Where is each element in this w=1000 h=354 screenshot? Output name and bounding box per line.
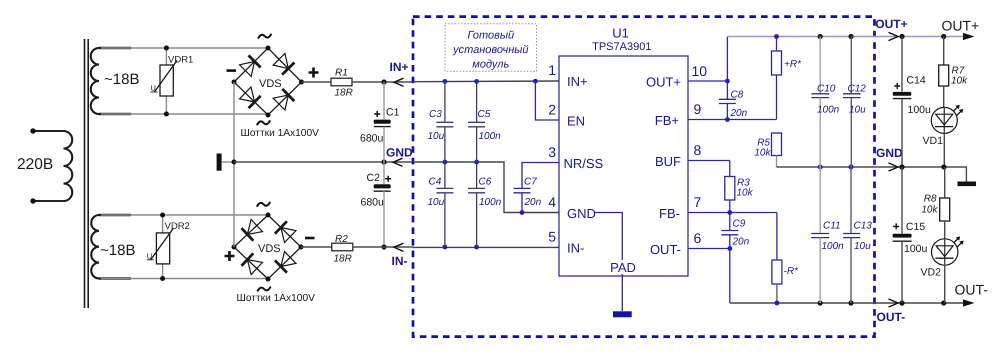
svg-text:3: 3 — [548, 144, 556, 160]
svg-text:C8: C8 — [731, 90, 744, 101]
capacitor C15 — [893, 167, 928, 303]
svg-text:C2: C2 — [367, 172, 381, 184]
svg-text:C15: C15 — [906, 221, 925, 233]
wire OUT+ row — [725, 34, 964, 122]
svg-text:680u: 680u — [361, 197, 385, 209]
wire EN tie — [535, 81, 559, 120]
op-amp regulator U1 TPS7A3901 — [559, 26, 688, 277]
svg-text:C4: C4 — [429, 177, 442, 188]
svg-text:6: 6 — [694, 230, 702, 246]
wire secondary1 bottom to bridge — [101, 113, 268, 115]
wire OUT+ corner from pin10 — [726, 37, 728, 82]
node GND junctions far right — [899, 164, 946, 169]
svg-text:PAD: PAD — [610, 260, 636, 275]
diode bridge2 top-right — [281, 228, 296, 243]
svg-text:VD2: VD2 — [921, 267, 942, 279]
wire secondary1 top to bridge — [101, 47, 268, 49]
PAD ground bar — [613, 311, 632, 317]
pin 6 stub — [688, 248, 730, 250]
svg-text:C11: C11 — [823, 221, 841, 232]
module dashed box — [413, 17, 875, 337]
svg-text:Готовый: Готовый — [467, 30, 514, 42]
svg-text:18R: 18R — [335, 87, 353, 98]
svg-text:~18В: ~18В — [104, 71, 139, 88]
svg-text:100n: 100n — [479, 197, 502, 208]
capacitor C14 — [893, 37, 931, 168]
svg-text:C14: C14 — [906, 75, 925, 87]
svg-text:10k: 10k — [951, 76, 968, 87]
resistor R3 — [725, 161, 754, 215]
LED VD1 — [923, 105, 964, 167]
module note box — [445, 24, 537, 72]
capacitor C13 — [843, 167, 872, 303]
svg-text:EN: EN — [567, 114, 585, 129]
svg-text:GND: GND — [876, 146, 903, 160]
resistor R5 — [754, 133, 781, 167]
wire OUT- corner from pin6 — [729, 249, 731, 304]
capacitor C1 — [360, 82, 400, 162]
svg-text:C1: C1 — [386, 107, 400, 119]
svg-text:OUT-: OUT- — [877, 310, 906, 324]
svg-text:IN-: IN- — [392, 254, 408, 268]
resistor R1 — [302, 67, 413, 98]
pin 10 stub — [688, 80, 727, 82]
svg-text:C10: C10 — [817, 84, 836, 95]
resistor R2 — [301, 234, 413, 265]
svg-text:IN+: IN+ — [567, 74, 588, 89]
svg-text:100u: 100u — [904, 243, 928, 255]
svg-text:OUT-: OUT- — [650, 242, 681, 257]
wire secondary2 bottom to bridge — [101, 278, 268, 280]
resistor R8 — [921, 167, 949, 239]
diode bridge2 top-left — [247, 220, 262, 235]
svg-text:C3: C3 — [429, 109, 442, 120]
svg-text:C12: C12 — [848, 84, 867, 95]
svg-text:C7: C7 — [524, 177, 537, 188]
varistor VDR2 — [147, 213, 190, 282]
capacitor C9 — [721, 213, 749, 251]
resistor R7 — [939, 37, 968, 108]
svg-text:7: 7 — [694, 194, 702, 210]
svg-text:1: 1 — [548, 62, 556, 78]
resistor +R* — [772, 37, 803, 120]
ground symbol right — [958, 182, 977, 187]
svg-text:Шоттки 1Ах100V: Шоттки 1Ах100V — [237, 293, 316, 304]
PAD label — [609, 260, 637, 275]
plus sign bridge2 — [225, 251, 235, 261]
svg-text:VDS: VDS — [259, 78, 282, 90]
port label OUT+ right — [875, 17, 907, 41]
svg-text:+R*: +R* — [784, 59, 802, 70]
diode bridge1 bottom-left — [240, 87, 255, 102]
svg-text:8: 8 — [694, 142, 702, 158]
capacitor C10 — [812, 37, 840, 168]
diode bridge1 top-right — [273, 54, 288, 69]
svg-text:R8: R8 — [924, 194, 937, 205]
port arrow IN- — [392, 243, 408, 268]
svg-text:10u: 10u — [854, 241, 871, 252]
svg-text:IN+: IN+ — [390, 60, 409, 74]
port label GND right — [876, 146, 903, 171]
svg-text:TPS7A3901: TPS7A3901 — [592, 41, 651, 53]
bridge rectifier VDS top — [232, 35, 305, 125]
svg-text:VDR2: VDR2 — [165, 221, 190, 232]
terminal arrow OUT- — [963, 299, 975, 306]
svg-text:-R*: -R* — [784, 266, 800, 277]
svg-text:2: 2 — [548, 102, 556, 118]
wire IN- row inside module — [413, 245, 559, 250]
svg-text:установочный: установочный — [452, 44, 528, 56]
svg-text:VD1: VD1 — [923, 135, 944, 147]
pin 8 stub — [688, 160, 730, 162]
svg-text:NR/SS: NR/SS — [564, 156, 604, 171]
pin 7 stub — [688, 212, 777, 214]
svg-text:GND: GND — [567, 206, 596, 221]
port arrow GND left — [386, 145, 413, 166]
minus sign bridge1 — [227, 69, 237, 72]
svg-text:Шоттки 1Ах100V: Шоттки 1Ах100V — [241, 128, 320, 139]
diode bridge2 bottom-left — [247, 260, 262, 275]
svg-text:100n: 100n — [817, 104, 840, 115]
diode bridge1 top-left — [240, 62, 255, 77]
svg-text:C9: C9 — [733, 218, 746, 229]
svg-text:10k: 10k — [737, 188, 754, 199]
svg-text:10k: 10k — [921, 205, 938, 216]
svg-text:10: 10 — [692, 63, 708, 79]
capacitor C11 — [811, 167, 844, 303]
svg-text:100n: 100n — [822, 241, 845, 252]
node OUT+ junctions far right — [899, 34, 946, 39]
svg-text:20n: 20n — [524, 197, 542, 208]
svg-text:U: U — [151, 84, 156, 93]
diode bridge1 bottom-right — [273, 95, 288, 110]
svg-text:20n: 20n — [730, 108, 748, 119]
svg-text:5: 5 — [548, 229, 556, 245]
svg-text:U1: U1 — [612, 26, 629, 41]
port label OUT- right — [877, 299, 906, 324]
svg-text:220В: 220В — [17, 156, 53, 173]
svg-text:C6: C6 — [479, 177, 492, 188]
plus sign bridge1 — [309, 68, 319, 78]
svg-text:FB-: FB- — [659, 206, 680, 221]
pin 9 stub — [688, 119, 777, 121]
svg-text:4: 4 — [548, 194, 556, 210]
svg-text:U: U — [147, 251, 152, 260]
svg-text:C5: C5 — [478, 109, 491, 120]
wire secondary2 top to bridge — [101, 214, 268, 216]
capacitor C5 — [468, 81, 501, 162]
svg-text:GND: GND — [386, 145, 413, 159]
svg-text:R2: R2 — [335, 234, 348, 245]
port arrow IN+ — [390, 60, 409, 87]
pin 4 name + internal gnd wire — [567, 206, 622, 311]
ground chassis bar — [217, 154, 234, 171]
wire vertical bus minus/plus to gnd — [232, 82, 237, 247]
svg-text:OUT+: OUT+ — [646, 75, 681, 90]
wire GND row inside module to pin4 — [413, 160, 559, 215]
svg-text:680u: 680u — [360, 132, 384, 144]
svg-text:FB+: FB+ — [655, 113, 679, 128]
svg-text:VDR1: VDR1 — [168, 55, 193, 66]
svg-text:100u: 100u — [908, 104, 932, 116]
svg-text:C13: C13 — [854, 221, 873, 232]
capacitor C4 — [428, 162, 454, 247]
capacitor C2 — [361, 162, 392, 250]
svg-text:10u: 10u — [428, 197, 445, 208]
wire gnd row left — [234, 159, 413, 164]
svg-text:20n: 20n — [732, 237, 750, 248]
svg-text:100n: 100n — [479, 131, 502, 142]
svg-text:9: 9 — [694, 101, 702, 117]
svg-text:OUT+: OUT+ — [875, 17, 907, 31]
wire IN+ row inside module — [413, 79, 559, 84]
transformer secondary winding 2 — [91, 215, 131, 279]
svg-text:10k: 10k — [754, 148, 771, 159]
capacitor C3 — [428, 81, 454, 162]
wire OUT- row — [730, 300, 964, 305]
svg-text:R1: R1 — [335, 67, 348, 78]
svg-text:VDS: VDS — [258, 243, 281, 255]
svg-text:10u: 10u — [428, 131, 445, 142]
svg-text:BUF: BUF — [655, 154, 681, 169]
transformer primary winding — [30, 128, 72, 203]
svg-text:IN-: IN- — [567, 241, 584, 256]
capacitor C6 — [468, 162, 502, 247]
diode bridge2 bottom-right — [281, 252, 296, 267]
terminal arrow OUT+ — [963, 33, 975, 40]
svg-text:18R: 18R — [334, 254, 352, 265]
transformer secondary winding 1 — [91, 48, 131, 114]
resistor -R* — [772, 213, 799, 304]
capacitor C12 — [843, 37, 866, 168]
capacitor C7 — [514, 163, 560, 213]
bridge rectifier VDS bottom — [232, 203, 304, 291]
capacitor C8 — [719, 81, 748, 120]
wire GND right row — [777, 165, 967, 182]
svg-text:OUT+: OUT+ — [942, 17, 980, 33]
transformer core — [85, 39, 89, 308]
svg-text:OUT-: OUT- — [955, 281, 989, 297]
svg-text:~18В: ~18В — [100, 242, 135, 259]
svg-text:модуль: модуль — [472, 59, 509, 71]
varistor VDR1 — [151, 46, 194, 117]
LED VD2 — [921, 236, 964, 303]
svg-text:10u: 10u — [849, 104, 866, 115]
minus sign bridge2 — [305, 237, 315, 240]
